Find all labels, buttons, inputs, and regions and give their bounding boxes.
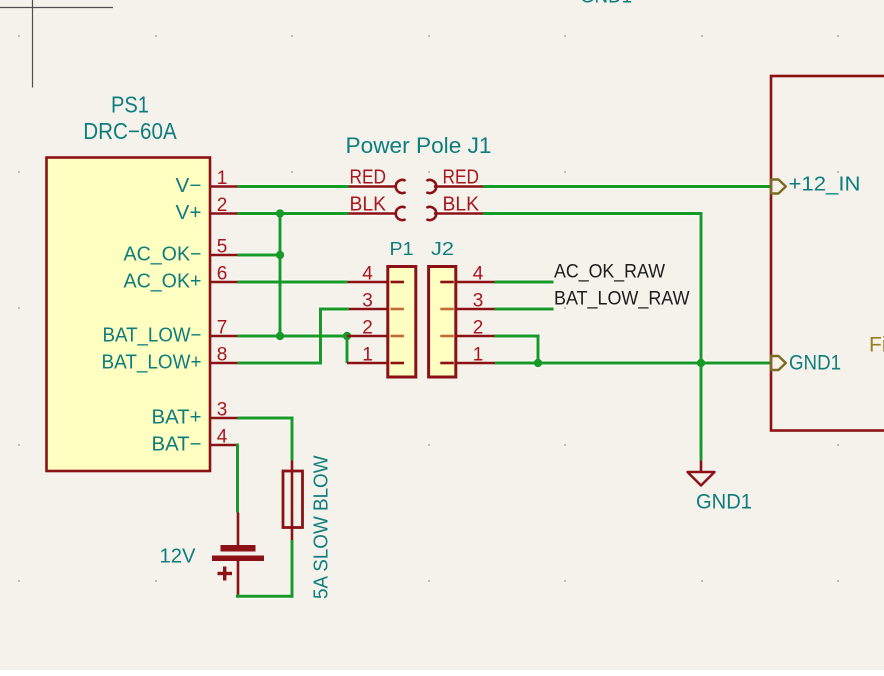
J1 right half pin RED xyxy=(427,167,483,194)
svg-text:File: File xyxy=(869,334,884,357)
svg-text:5: 5 xyxy=(217,237,228,258)
PS1 pin 1 V- xyxy=(176,168,238,197)
junction J2 pin1 x=538 xyxy=(534,359,542,367)
svg-text:GND1: GND1 xyxy=(696,490,752,514)
svg-text:2: 2 xyxy=(217,195,228,216)
svg-text:Power Pole J1: Power Pole J1 xyxy=(346,133,492,158)
wire J2 pin3 to net label xyxy=(495,308,554,311)
svg-text:+12_IN: +12_IN xyxy=(789,174,861,196)
junction AC_OK- bus xyxy=(276,251,284,259)
wire battery bottom to fuse bottom xyxy=(236,595,239,597)
PS1 pin 3 BAT+ xyxy=(152,400,238,429)
battery BT1 xyxy=(160,513,265,595)
J1 left half pin BLK xyxy=(349,194,405,221)
wire vertical x=320.5 xyxy=(319,309,322,365)
svg-text:RED: RED xyxy=(443,167,480,189)
svg-text:DRC−60A: DRC−60A xyxy=(83,118,177,144)
J1 right half pin BLK xyxy=(427,194,483,221)
svg-text:AC_OK−: AC_OK− xyxy=(124,244,202,266)
wire vertical bus at x=280 xyxy=(279,214,282,337)
P1 pin 4 xyxy=(348,264,405,285)
svg-text:BLK: BLK xyxy=(350,194,387,216)
wire V- to J1 RED xyxy=(238,185,349,188)
P1 pin 2 xyxy=(347,318,404,339)
svg-text:1: 1 xyxy=(473,345,484,366)
svg-text:4: 4 xyxy=(362,264,373,285)
junction GND row x=701 xyxy=(697,359,705,367)
PS1 pin 6 AC_OK+ xyxy=(124,264,238,293)
svg-text:1: 1 xyxy=(217,168,228,189)
wire vertical x=347 to P1 pin1 xyxy=(346,336,349,363)
sheet pin GND1 xyxy=(771,352,841,375)
connector J2 body xyxy=(429,239,456,377)
connector P1 body xyxy=(388,239,416,377)
wire J2 pin2 right xyxy=(495,335,539,338)
junction V+ bus xyxy=(276,209,284,217)
svg-text:BAT_LOW_RAW: BAT_LOW_RAW xyxy=(554,289,690,310)
wire AC_OK- stub xyxy=(238,254,281,257)
junction BAT_LOW- bus xyxy=(276,332,284,340)
wire BAT_LOW+ horizontal xyxy=(238,362,321,365)
svg-text:3: 3 xyxy=(362,291,373,312)
svg-text:P1: P1 xyxy=(390,239,414,259)
svg-text:PS1: PS1 xyxy=(111,92,149,118)
J2 pin 1 xyxy=(440,345,495,366)
svg-text:V+: V+ xyxy=(176,202,202,224)
J2 pin 4 xyxy=(440,264,494,285)
P1 pin 3 xyxy=(349,291,404,312)
sheet pin +12_IN xyxy=(771,174,861,196)
hierarchical sheet xyxy=(771,76,884,431)
wire J1 RED to sheet pin +12_IN xyxy=(483,185,771,188)
svg-text:8: 8 xyxy=(217,345,228,366)
wire J2 pin4 to net label xyxy=(495,281,554,284)
wire vertical BLK down to GND1 row xyxy=(700,212,703,461)
svg-text:2: 2 xyxy=(473,318,484,339)
svg-text:4: 4 xyxy=(217,427,228,448)
svg-text:3: 3 xyxy=(473,291,484,312)
svg-text:AC_OK+: AC_OK+ xyxy=(124,271,202,293)
svg-text:RED: RED xyxy=(350,167,387,189)
PS1 pin 8 BAT_LOW+ xyxy=(102,345,238,374)
svg-text:4: 4 xyxy=(473,264,484,285)
svg-text:6: 6 xyxy=(217,264,228,285)
J2 pin 2 xyxy=(440,318,494,339)
svg-text:BLK: BLK xyxy=(443,194,480,216)
wire BAT+ to fuse xyxy=(238,417,293,420)
svg-text:BAT_LOW−: BAT_LOW− xyxy=(103,325,202,347)
svg-text:3: 3 xyxy=(217,400,228,421)
PS1 pin 7 BAT_LOW- xyxy=(103,318,238,347)
PS1 pin 5 AC_OK- xyxy=(124,237,238,266)
wire BAT_LOW- to P1 pin2 xyxy=(238,335,348,338)
J2 pin 3 xyxy=(440,291,494,312)
wire BAT- down xyxy=(236,444,239,513)
svg-text:12V: 12V xyxy=(160,546,197,568)
svg-text:5A SLOW BLOW: 5A SLOW BLOW xyxy=(311,455,333,599)
svg-text:7: 7 xyxy=(217,318,228,339)
svg-text:1: 1 xyxy=(362,345,373,366)
junction P1 pin2 xyxy=(343,332,351,340)
svg-text:2: 2 xyxy=(362,318,373,339)
svg-text:AC_OK_RAW: AC_OK_RAW xyxy=(554,262,665,283)
svg-text:GND1: GND1 xyxy=(789,352,841,375)
wire halo underlay xyxy=(236,187,771,598)
wire AC_OK+ to P1 pin4 xyxy=(238,281,348,284)
wire GND1 row J2 pin1 to sheet xyxy=(495,362,771,365)
svg-text:BAT_LOW+: BAT_LOW+ xyxy=(102,352,202,374)
wire J1 BLK right toward GND net xyxy=(483,212,703,215)
J1 left half pin RED xyxy=(349,167,405,194)
PS1 pin 4 BAT- xyxy=(152,427,238,456)
wire V+ to J1 BLK xyxy=(238,212,349,215)
wire to P1 pin3 xyxy=(319,308,349,311)
ground symbol GND1 xyxy=(688,461,753,514)
power supply PS1 body xyxy=(47,158,211,472)
svg-text:J2: J2 xyxy=(431,239,454,259)
wire fuse top vertical xyxy=(291,417,294,461)
PS1 pin 2 V+ xyxy=(176,195,238,224)
svg-text:BAT+: BAT+ xyxy=(152,407,202,429)
fuse F1 xyxy=(283,455,333,599)
svg-text:V−: V− xyxy=(176,175,202,197)
P1 pin 1 xyxy=(347,345,404,366)
svg-text:BAT−: BAT− xyxy=(152,434,202,456)
wire BAT- corner xyxy=(236,444,239,447)
svg-text:GND1: GND1 xyxy=(580,0,632,8)
wire vertical x=538 xyxy=(537,335,540,364)
